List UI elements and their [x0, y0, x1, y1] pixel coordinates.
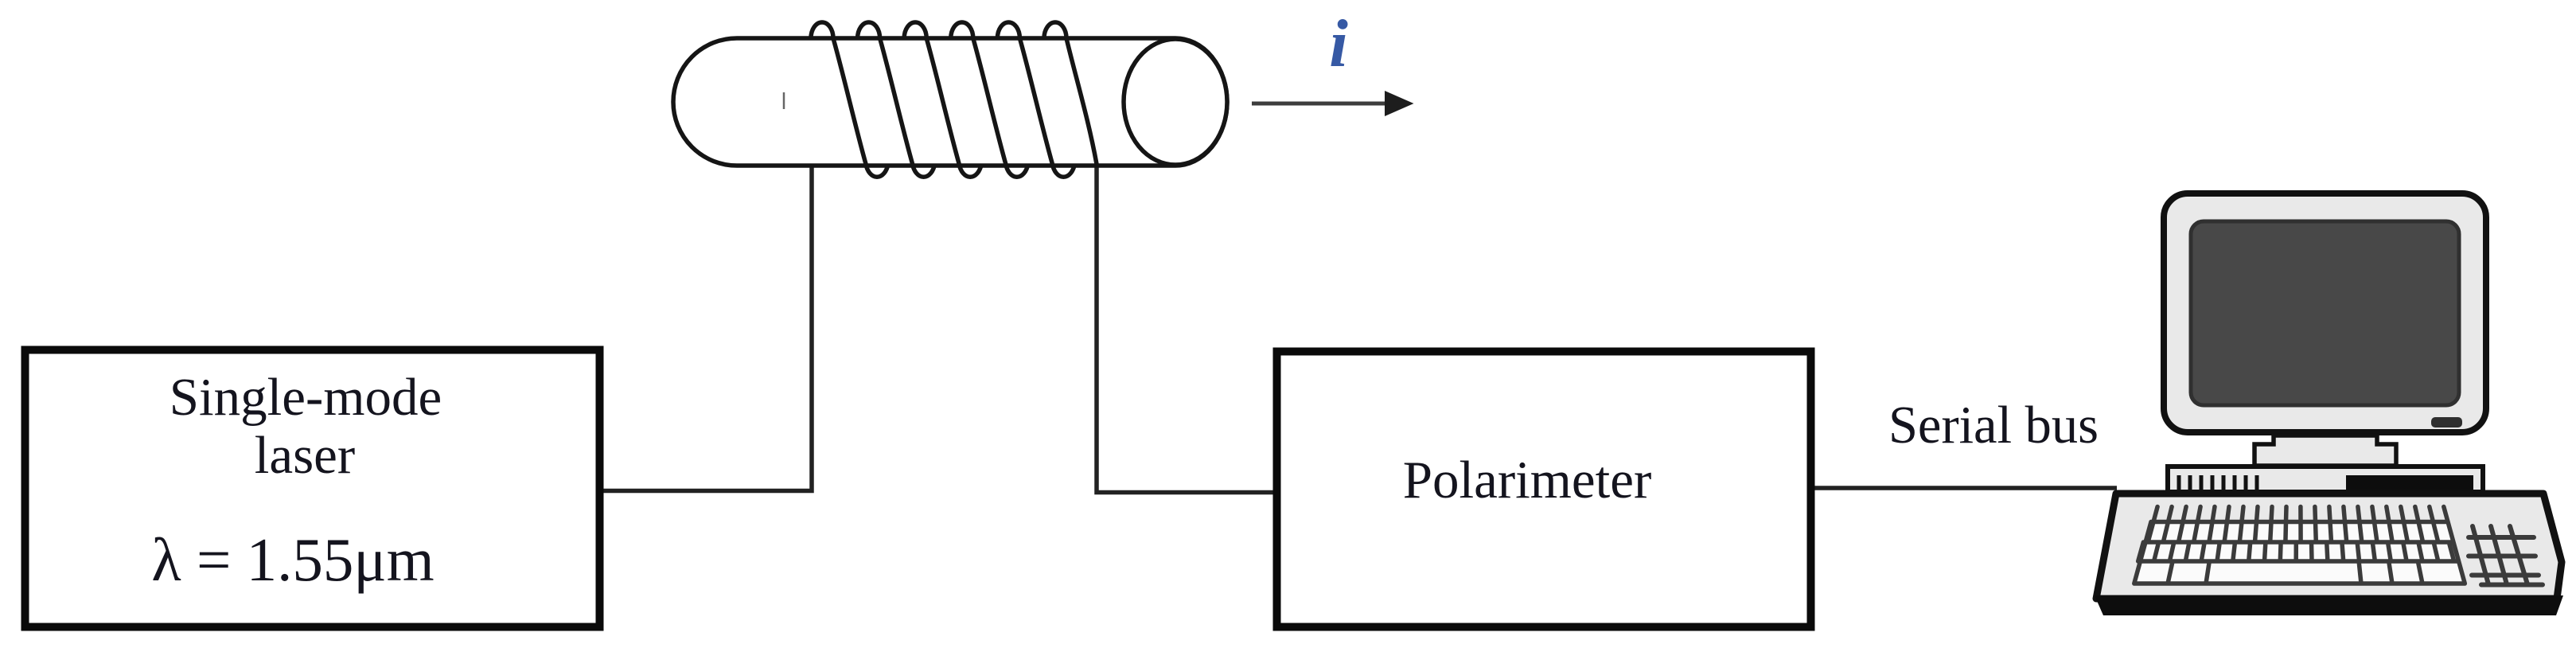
wire: serial bus line polarimeter to computer: [1814, 486, 2117, 490]
svg-text:Polarimeter: Polarimeter: [1403, 451, 1652, 509]
system unit: [2168, 467, 2483, 492]
monitor screen: [2191, 221, 2459, 405]
polarimeter box: [1277, 352, 1811, 627]
svg-text:Serial bus: Serial bus: [1888, 396, 2099, 455]
keyboard base shadow: [2095, 595, 2563, 615]
stray mark on cylinder: [783, 92, 785, 109]
monitor power slot: [2431, 417, 2462, 428]
keyboard body: [2096, 494, 2562, 599]
keyboard numeric pad: [2469, 526, 2543, 585]
system unit vents: [2179, 475, 2257, 490]
wire: laser output to coil (left lead): [603, 164, 812, 491]
laser box: [25, 350, 600, 627]
wire: coil right lead to polarimeter: [1097, 164, 1273, 493]
current arrow head: [1385, 91, 1414, 116]
svg-text:i: i: [1329, 6, 1348, 81]
svg-text:laser: laser: [255, 426, 355, 485]
system unit dark slot: [2346, 475, 2473, 491]
cylinder end face ellipse: [1124, 39, 1227, 165]
fiber coil windings: [811, 22, 1097, 177]
svg-text:λ = 1.55μm: λ = 1.55μm: [151, 525, 434, 594]
computer monitor bezel: [2164, 193, 2486, 432]
keyboard key field: [2134, 522, 2465, 584]
current arrow shaft: [1252, 102, 1389, 106]
fiber spool cylinder body: [673, 38, 1227, 166]
svg-text:Single-mode: Single-mode: [170, 368, 442, 427]
monitor stand: [2254, 435, 2396, 466]
keyboard keys grid: [2134, 507, 2465, 584]
